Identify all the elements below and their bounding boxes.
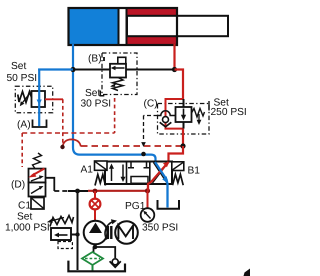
test point circle-X xyxy=(90,199,101,210)
wire: black stub into valve C xyxy=(183,99,185,107)
node pilot tee xyxy=(180,143,185,148)
wire: red check-valve loop top xyxy=(166,99,184,111)
red dashed drain from valve B xyxy=(114,98,116,133)
tick after (B) xyxy=(103,57,105,61)
wire: valve C outlet black xyxy=(183,122,185,129)
svg-text:Set: Set xyxy=(17,212,32,223)
valve A enclosure (dash-dot) xyxy=(15,86,52,112)
svg-text:(C): (C) xyxy=(144,99,158,110)
valve A body xyxy=(32,91,46,107)
cylinder body cap-side fluid (blue) xyxy=(69,9,118,44)
relief internal arrow xyxy=(58,234,68,236)
DCV left spring xyxy=(95,175,106,186)
svg-text:50 PSI: 50 PSI xyxy=(7,73,38,84)
valve B spring xyxy=(113,78,124,91)
DCV left box down arrow xyxy=(122,165,124,179)
leader L mark (B) xyxy=(100,91,104,96)
valve D spring top xyxy=(33,153,42,169)
red dashed drain vertical from valve A xyxy=(62,99,64,144)
wire: relief inlet xyxy=(71,234,78,236)
wire: black bus from junction to rod-line xyxy=(73,69,175,71)
DCV right solenoid xyxy=(172,162,184,171)
node relief branch xyxy=(75,189,80,194)
wire: red down to DCV junction xyxy=(182,129,184,146)
DCV center bottom rect xyxy=(131,177,148,184)
valve C drain arrow xyxy=(198,114,200,122)
valve D top arrow xyxy=(31,178,40,182)
pump triangle xyxy=(89,223,102,234)
valve B pilot loop xyxy=(118,57,126,64)
valve D body top box xyxy=(29,169,46,183)
wire: valve D outlet elbow xyxy=(46,178,55,191)
main tank xyxy=(68,261,125,272)
wire: red riser P to gauge xyxy=(147,191,149,209)
DCV center blocked port 1 xyxy=(128,162,134,168)
wire: pump pressure line red xyxy=(88,190,148,192)
red dashed drain collector horizontal xyxy=(22,132,114,134)
svg-text:PG1: PG1 xyxy=(125,201,146,212)
red dashed pilot to valve D xyxy=(21,133,23,167)
svg-text:(A): (A) xyxy=(17,120,31,131)
node suction tee xyxy=(93,245,98,250)
red pilot from valve A xyxy=(45,98,63,100)
valve C drain hop over check line xyxy=(158,111,176,116)
wire: red jog down to valve C xyxy=(175,70,184,100)
DCV divider 1 xyxy=(126,162,128,185)
wire: down to strainer xyxy=(93,247,95,253)
pump circle xyxy=(84,221,108,245)
valve A internal arrowhead xyxy=(37,100,42,106)
corner artifact bottom-right xyxy=(244,269,251,276)
motor letter M xyxy=(118,226,133,239)
DCV left box up arrow xyxy=(111,167,113,181)
wire: relief branch vertical xyxy=(77,191,79,270)
check valve seat xyxy=(160,122,172,127)
cylinder body outline xyxy=(69,8,178,45)
motor circle xyxy=(115,221,138,244)
wire: blue cap-end port stub xyxy=(72,44,74,70)
coupling bars xyxy=(107,226,109,239)
wire: red to DCV B-port xyxy=(169,146,184,162)
red hop over blue line xyxy=(63,139,81,147)
node relief inlet xyxy=(75,232,79,236)
relief vent dashed box xyxy=(58,242,72,249)
node pump riser xyxy=(93,189,98,194)
svg-text:30 PSI: 30 PSI xyxy=(81,99,112,110)
wire: red flow diagonal in DCV xyxy=(148,162,169,191)
gauge PG1 xyxy=(141,208,155,222)
relief adjust arrow xyxy=(51,218,64,222)
valve B internal arrow xyxy=(114,67,125,69)
wire: red check line bottom xyxy=(166,110,184,129)
wire: pump pressure line black xyxy=(68,190,88,192)
valve C enclosure (dash-dot) xyxy=(158,104,210,135)
valve D bottom arrow xyxy=(31,188,41,194)
DCV right box black X xyxy=(153,163,169,184)
valve C spring xyxy=(192,109,205,118)
wire: strainer to tank xyxy=(92,265,94,271)
valve D red pilot arrow xyxy=(32,169,45,176)
node junction rod-line xyxy=(172,67,177,72)
node on drain hop xyxy=(60,145,64,149)
motor rotation arc xyxy=(105,222,113,240)
valve D body bottom box xyxy=(29,183,46,197)
svg-text:Set: Set xyxy=(11,61,26,72)
node drain to A-line xyxy=(141,152,146,157)
svg-text:(B): (B) xyxy=(88,54,102,65)
wire: blue A-line from junction down, elbow right, to DCV xyxy=(73,70,156,163)
valve A adjust arrow xyxy=(22,93,31,104)
relief valve body xyxy=(51,228,71,240)
valve B drain arrow xyxy=(112,84,118,87)
strainer diamond xyxy=(82,252,103,265)
valve B enclosure (dash-dot) xyxy=(102,53,137,95)
valve C body xyxy=(176,107,192,122)
svg-text:B1: B1 xyxy=(188,166,201,177)
svg-text:Set: Set xyxy=(85,88,100,99)
svg-text:350 PSI: 350 PSI xyxy=(142,223,178,234)
check valve ball xyxy=(163,117,169,123)
piston rod xyxy=(127,16,228,36)
valve A tank xyxy=(33,120,47,128)
cylinder rod-side fluid (red) xyxy=(118,9,177,44)
wire: blue branch to valve A xyxy=(38,68,73,70)
svg-text:1,000 PSI: 1,000 PSI xyxy=(5,223,50,234)
piston xyxy=(119,9,127,44)
DCV divider 2 xyxy=(149,162,151,185)
wire: pump outlet riser red xyxy=(94,191,96,200)
leader tick valve C xyxy=(208,101,210,111)
red dashed drain run to valve C line xyxy=(81,145,182,147)
node P junction xyxy=(145,188,150,193)
return arrow above fluid xyxy=(112,259,118,265)
svg-text:C1: C1 xyxy=(18,201,31,212)
valve C drain dash to A-line xyxy=(144,115,158,117)
wire: blue flow diagonal in DCV xyxy=(155,162,168,208)
svg-text:(D): (D) xyxy=(11,180,25,191)
valve D solenoid C1 xyxy=(31,198,44,210)
wire: pump pressure line dashed part xyxy=(54,190,68,192)
wire: red to pump xyxy=(94,209,96,221)
wire: red rod-end port stub xyxy=(173,44,175,70)
relief valve spring xyxy=(50,216,74,227)
DCV right spring xyxy=(173,174,184,185)
node junction cap-line / valve B line xyxy=(70,67,75,72)
DCV center blocked port 2 xyxy=(144,162,150,168)
svg-text:250 PSI: 250 PSI xyxy=(211,107,247,118)
valve A spring xyxy=(18,92,32,103)
wire: pump suction xyxy=(95,244,97,247)
valve B body xyxy=(110,64,126,78)
wire: blue through valve A to tank xyxy=(38,69,40,127)
svg-text:A1: A1 xyxy=(81,165,94,176)
DCV tank xyxy=(158,200,180,209)
DCV left solenoid xyxy=(95,161,108,170)
valve C internal arrow xyxy=(183,109,185,117)
DCV body xyxy=(105,162,172,185)
